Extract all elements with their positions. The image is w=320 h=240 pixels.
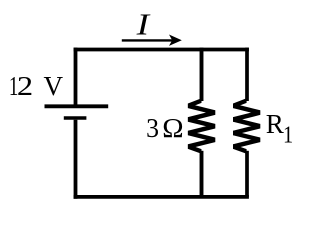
svg-text:R: R [266, 109, 285, 139]
svg-text:V: V [44, 71, 64, 101]
svg-text:1: 1 [283, 121, 293, 148]
svg-text:3: 3 [146, 112, 159, 143]
svg-text:Ω: Ω [162, 114, 183, 144]
svg-text:2: 2 [17, 71, 33, 101]
svg-text:I: I [136, 7, 151, 41]
